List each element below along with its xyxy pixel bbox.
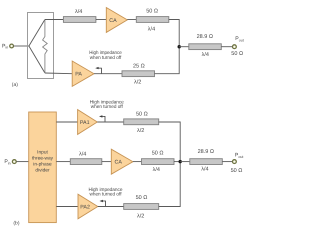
svg-text:PA: PA xyxy=(75,72,82,78)
svg-text:CA: CA xyxy=(109,18,117,24)
svg-text:when turned off: when turned off xyxy=(90,55,122,61)
isolation resistor (a) xyxy=(43,20,48,74)
svg-text:Input: Input xyxy=(37,149,48,155)
label 50 ohm (b top) xyxy=(136,112,148,118)
transmission line 50ohm lambda/4 (b middle) xyxy=(142,159,175,165)
svg-text:(b): (b) xyxy=(13,221,19,227)
label Pout (b) xyxy=(235,153,243,159)
svg-text:50 Ω: 50 Ω xyxy=(146,8,158,14)
svg-text:28.9 Ω: 28.9 Ω xyxy=(197,34,213,40)
transmission line lambda/4 input (a) xyxy=(63,17,96,23)
svg-text:PA2: PA2 xyxy=(80,204,90,210)
svg-text:50 Ω: 50 Ω xyxy=(136,195,148,201)
svg-text:when turned off: when turned off xyxy=(90,192,123,198)
label 50 ohm (b bottom) xyxy=(136,195,148,201)
wire PA1 to 50ohm line (b) xyxy=(97,121,123,123)
op-amp CA (b) xyxy=(111,149,133,174)
wire 50ohm line to bus (a) xyxy=(169,20,179,47)
op-amp CA (a) xyxy=(106,8,127,33)
op-amp PA1 (b) xyxy=(78,110,98,135)
label (b) xyxy=(13,221,19,227)
wire line to CA (a) xyxy=(96,19,106,21)
svg-text:28.9 Ω: 28.9 Ω xyxy=(198,149,214,155)
transmission line 28.9ohm lambda/4 output (b) xyxy=(190,159,223,165)
svg-text:25 Ω: 25 Ω xyxy=(133,63,145,69)
wire output line to terminal (b) xyxy=(222,161,232,163)
svg-text:λ/4: λ/4 xyxy=(75,9,82,15)
svg-text:λ/4: λ/4 xyxy=(79,152,86,158)
wire 25ohm line to bus (a) xyxy=(155,47,180,74)
label Pin (a) xyxy=(2,43,8,49)
svg-text:λ/4: λ/4 xyxy=(202,52,209,58)
node junction (b) xyxy=(179,160,182,163)
label 50 ohm output (b) xyxy=(231,168,243,174)
svg-text:λ/4: λ/4 xyxy=(201,167,208,173)
wire PA to 25ohm line (a) xyxy=(94,73,122,75)
svg-text:λ/2: λ/2 xyxy=(134,80,141,86)
label lambda/4 (a top) xyxy=(75,9,82,15)
three-way divider box (b) xyxy=(29,112,57,223)
wire divider to PA1 (b) xyxy=(56,121,77,123)
label lambda/4 (b middle right) xyxy=(153,167,160,173)
arrow high impedance node (a) xyxy=(95,67,101,74)
wire divider to lambda/4 line (b) xyxy=(56,161,70,163)
two-way divider box (a) xyxy=(28,13,54,79)
svg-text:(a): (a) xyxy=(12,82,18,88)
wire CA to 50ohm line (b) xyxy=(133,161,142,163)
label lambda/4 (b middle) xyxy=(79,152,86,158)
transmission line lambda/4 (b middle) xyxy=(70,159,102,165)
svg-text:CA: CA xyxy=(115,160,123,166)
wire divider to PA2 (b) xyxy=(56,206,78,208)
svg-text:50 Ω: 50 Ω xyxy=(231,168,243,174)
op-amp PA (a) xyxy=(72,61,94,86)
svg-text:50 Ω: 50 Ω xyxy=(136,112,148,118)
label Pin (b) xyxy=(4,159,10,165)
label lambda/4 (a top right) xyxy=(148,27,155,33)
label 28.9 ohm (b) xyxy=(198,149,214,155)
svg-text:in-phase: in-phase xyxy=(33,162,52,168)
wire input to divider (a) xyxy=(14,45,29,47)
label lambda/2 (b bottom) xyxy=(137,214,144,220)
wire junction to output line (b) xyxy=(180,161,190,163)
svg-text:λ/2: λ/2 xyxy=(137,214,144,220)
wire divider lower branch (a) xyxy=(29,46,45,73)
input terminal (a) xyxy=(10,44,14,48)
svg-text:50 Ω: 50 Ω xyxy=(231,51,243,57)
label lambda/2 (b top) xyxy=(137,128,144,134)
node junction (a) xyxy=(178,45,181,48)
wire divider to PA (a) xyxy=(45,72,72,75)
svg-text:three-way: three-way xyxy=(32,156,54,162)
label 50 ohm (a top) xyxy=(146,8,158,14)
wire 50ohm top line to bus (b) xyxy=(159,122,181,162)
transmission line 28.9ohm lambda/4 output (a) xyxy=(189,44,222,50)
transmission line 50ohm lambda/2 (b bottom) xyxy=(124,204,159,210)
label high impedance (a) xyxy=(89,50,122,61)
transmission line 50ohm lambda/2 (b top) xyxy=(124,119,159,125)
label high impedance (b top) xyxy=(90,99,124,110)
input terminal (b) xyxy=(12,160,16,164)
label high impedance (b bottom) xyxy=(89,187,123,198)
wire junction to output line (a) xyxy=(179,46,189,48)
wire divider upper branch (a) xyxy=(29,20,45,47)
svg-text:λ/4: λ/4 xyxy=(148,27,155,33)
svg-text:λ/4: λ/4 xyxy=(153,167,160,173)
wire 50ohm line to junction (b) xyxy=(174,161,180,163)
svg-text:λ/2: λ/2 xyxy=(137,128,144,134)
label 28.9 ohm (a) xyxy=(197,34,213,40)
arrow high impedance node (b top) xyxy=(99,115,105,122)
svg-text:50 Ω: 50 Ω xyxy=(152,151,164,157)
label lambda/2 (a) xyxy=(134,80,141,86)
label Pout (a) xyxy=(235,36,243,42)
transmission line 25ohm lambda/2 (a) xyxy=(122,71,155,77)
wire PA2 to 50ohm line (b) xyxy=(98,206,124,208)
arrow high impedance node (b bottom) xyxy=(100,200,106,207)
label 50 ohm output (a) xyxy=(231,51,243,57)
label (a) xyxy=(12,82,18,88)
svg-text:PA1: PA1 xyxy=(80,120,90,126)
wire line to CA (b) xyxy=(102,161,112,163)
label lambda/4 (b output) xyxy=(201,167,208,173)
wire 50ohm bottom line to bus (b) xyxy=(159,162,181,207)
label 50 ohm (b middle) xyxy=(152,151,164,157)
svg-text:when turned off: when turned off xyxy=(91,104,124,110)
output terminal (a) xyxy=(233,45,237,49)
op-amp PA2 (b) xyxy=(78,194,98,219)
wire output line to terminal (a) xyxy=(221,46,232,48)
transmission line 50ohm lambda/4 (a) xyxy=(136,17,169,23)
output terminal (b) xyxy=(233,160,237,164)
label 25 ohm (a) xyxy=(133,63,145,69)
wire divider to lambda/4 line (a) xyxy=(45,19,64,21)
svg-text:divider: divider xyxy=(35,168,50,174)
wire CA to 50ohm line (a) xyxy=(127,19,136,21)
label lambda/4 (a output) xyxy=(202,52,209,58)
wire input to divider (b) xyxy=(16,161,28,163)
